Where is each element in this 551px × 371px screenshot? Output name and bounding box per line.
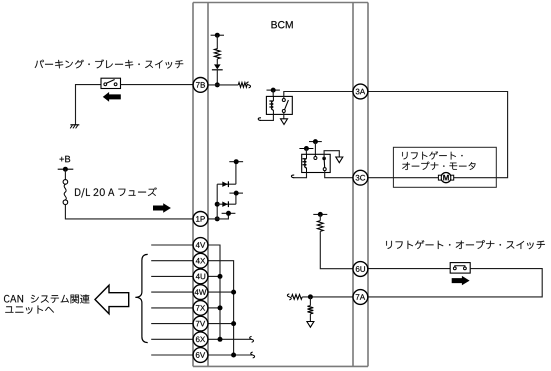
diode D2 <box>222 202 228 207</box>
terminal 3C <box>353 170 368 185</box>
junction 6V <box>231 353 236 358</box>
resistor 6U <box>317 221 323 232</box>
ground arrow K2 <box>336 157 343 163</box>
wire 1P to node stub <box>208 213 228 219</box>
wire diode row1 <box>217 183 236 185</box>
node stub 6U branch <box>313 213 327 215</box>
resistor 7B pull-up <box>214 49 220 59</box>
liftgate opener motor box <box>393 147 496 187</box>
wire stub to K2 contact <box>314 142 316 157</box>
node stub above K2 coil <box>299 148 313 150</box>
relay K2 box <box>302 154 331 172</box>
junction 4W <box>231 290 236 295</box>
diode 7B (down) <box>214 64 221 69</box>
wire diode to 7B node <box>216 70 218 85</box>
wire K2 pivot to ground arrow <box>324 151 339 159</box>
terminal 4V <box>193 238 208 253</box>
wire 6U to switch <box>368 268 450 270</box>
wire K2 coil return <box>294 173 307 178</box>
wire K1 switch down <box>283 113 285 119</box>
wire +B to fuse <box>64 169 66 179</box>
terminal 7V <box>193 316 208 331</box>
relay K2 contact lower <box>323 168 326 171</box>
label CAN line1 <box>4 295 23 303</box>
junction 7X <box>218 305 223 310</box>
terminal 6U <box>353 262 368 277</box>
wire stub to K2 coil <box>305 149 307 155</box>
wire K1 switch to 3A <box>284 92 353 99</box>
motor M symbol <box>441 173 451 183</box>
label CAN line2 <box>5 305 54 313</box>
+B supply bar <box>58 168 74 170</box>
node stub D1 <box>229 161 243 163</box>
junction 7B <box>215 82 220 87</box>
wire D2 up <box>235 193 237 204</box>
wire junction to series resistor <box>217 84 238 86</box>
relay K2 blade <box>323 158 326 167</box>
relay K2 contact upper <box>314 157 317 160</box>
continuation mark 7B resistor <box>247 82 251 88</box>
wire 4W to bus2 <box>208 291 234 293</box>
terminal 7A <box>353 290 368 305</box>
wire 7B to junction <box>193 84 217 86</box>
BCM connector frame <box>192 3 194 367</box>
junction 4U <box>218 274 223 279</box>
continuation mark 6V <box>251 352 255 358</box>
wire resistor to 7A <box>302 296 353 298</box>
wire switch to 7A loop <box>368 269 542 297</box>
node stub D2 <box>229 192 243 194</box>
brace CAN group <box>135 254 147 342</box>
relay K1 blade <box>285 100 289 110</box>
terminal 7X <box>193 301 208 316</box>
continuation mark 6X <box>250 336 254 342</box>
node stub above relay K1 coil <box>267 89 280 91</box>
wire stub to resistor 6U <box>319 214 321 220</box>
fuse D/L 20A <box>63 180 68 185</box>
continuation hook K1 coil <box>258 118 261 121</box>
CAN external stubs <box>151 244 193 246</box>
ground chassis symbol <box>70 124 79 126</box>
wire stub to K1 coil <box>272 90 274 96</box>
arrow fuse (right) <box>153 203 171 212</box>
wire resistor to 6U <box>320 231 353 268</box>
wire K2 switch to 3C <box>325 171 353 178</box>
node stub above 7B <box>211 34 224 36</box>
wire resistor to diode <box>216 59 218 65</box>
wire 7X to bus1 <box>208 307 220 309</box>
label motor line2 <box>402 162 475 170</box>
arrow to CAN units (open left) <box>95 285 129 314</box>
terminal 4U <box>193 269 208 284</box>
wire 6V continuation <box>208 354 253 356</box>
terminal 7B <box>193 78 208 93</box>
relay K2 blade pivot <box>322 157 326 161</box>
continuation hook K2 coil <box>291 175 294 178</box>
label +B <box>60 156 71 162</box>
wire 3C to motor <box>368 177 438 179</box>
junction 7V <box>231 321 236 326</box>
ground arrow K1 <box>281 119 288 125</box>
node stub 1P <box>222 212 236 214</box>
wire 6X continuation <box>208 338 252 340</box>
wire to ground arrow 7A <box>309 314 311 322</box>
label parking brake switch <box>35 59 184 68</box>
label D/L 20 A fuse <box>75 187 157 197</box>
wire 4U to bus1 <box>208 275 220 277</box>
wire 1P vertical <box>216 184 218 219</box>
bus wire from 4V <box>208 245 220 339</box>
wire K1 coil return <box>260 114 273 120</box>
resistor 7A down <box>308 306 314 314</box>
resistor 7A left <box>292 295 303 300</box>
junction 1P <box>215 216 220 221</box>
wire switch to 7B <box>121 84 193 86</box>
terminal 4W <box>193 285 208 300</box>
terminal 6V <box>193 348 208 363</box>
arrow parking brake (left) <box>103 92 121 102</box>
wire stub to resistor <box>216 35 218 49</box>
relay K1 contact bottom <box>282 110 285 113</box>
liftgate opener switch SW <box>450 263 470 274</box>
terminal 1P <box>193 212 208 227</box>
relay K1 box <box>266 96 292 114</box>
label motor line1 <box>402 151 462 159</box>
relay K1 coil <box>272 96 274 101</box>
wire D1 up <box>235 162 237 185</box>
wire diode row2 <box>217 203 236 205</box>
label liftgate opener switch <box>386 240 545 249</box>
wire 7A down <box>309 297 311 306</box>
wire 3A to motor <box>368 92 508 178</box>
diode D1 <box>222 182 228 187</box>
terminal 6X <box>193 332 208 347</box>
relay K1 contact top <box>282 99 285 102</box>
ground arrow 7A <box>307 322 314 328</box>
parking brake switch SW <box>101 78 121 88</box>
terminal 4X <box>193 253 208 268</box>
node stub above K2 switch <box>309 141 322 143</box>
wire 7V to bus2 <box>208 323 234 325</box>
junction diode row2 <box>215 202 220 207</box>
label BCM <box>272 21 293 28</box>
wire switch to ground <box>76 85 102 125</box>
terminal 3A <box>353 84 368 99</box>
wire fuse to 1P <box>65 205 193 219</box>
relay K2 coil <box>306 154 308 159</box>
junction 6X <box>218 337 223 342</box>
resistor 7B series <box>238 83 247 88</box>
continuation mark 7A resistor <box>287 294 291 300</box>
junction 7A <box>308 294 313 299</box>
arrow liftgate switch (right) <box>452 276 470 285</box>
bus wire from 4X <box>208 261 234 355</box>
